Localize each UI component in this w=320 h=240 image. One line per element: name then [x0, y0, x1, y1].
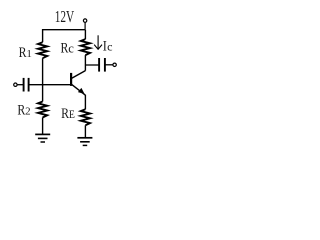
supply rail 12V wire: [43, 29, 86, 31]
transistor Q1 base bar: [70, 73, 72, 86]
output terminal circle: [113, 63, 116, 66]
resistor Rc: [81, 30, 90, 71]
resistor R2: [38, 85, 47, 134]
capacitor left plate: [98, 58, 100, 72]
input terminal circle: [14, 83, 17, 86]
base wire: [29, 84, 71, 86]
svg-text:c: c: [107, 39, 112, 53]
svg-text:1: 1: [26, 48, 32, 60]
wire capacitor to output terminal: [105, 64, 113, 66]
svg-text:c: c: [68, 41, 74, 56]
capacitor right plate: [104, 58, 106, 72]
svg-text:E: E: [69, 109, 75, 121]
wire collector to capacitor: [85, 64, 99, 66]
capacitor right plate: [28, 78, 30, 92]
resistor RE: [81, 109, 90, 137]
wire input terminal to capacitor: [17, 84, 23, 86]
capacitor left plate: [23, 78, 25, 92]
transistor Q1 emitter lead: [72, 84, 86, 95]
ground under RE: [77, 138, 92, 146]
wire from 12V terminal to rail: [84, 22, 86, 29]
svg-text:12V: 12V: [55, 7, 75, 26]
12V terminal circle: [83, 19, 86, 22]
ground under R2: [35, 134, 50, 142]
Ic current arrow: [94, 35, 102, 49]
resistor R1: [38, 29, 47, 86]
input coupling capacitor: [17, 78, 71, 92]
output coupling capacitor: [85, 58, 112, 72]
wire emitter to RE: [84, 95, 86, 110]
svg-text:2: 2: [25, 106, 31, 118]
transistor Q1 emitter arrowhead: [78, 88, 85, 94]
transistor Q1 collector lead: [72, 71, 86, 79]
